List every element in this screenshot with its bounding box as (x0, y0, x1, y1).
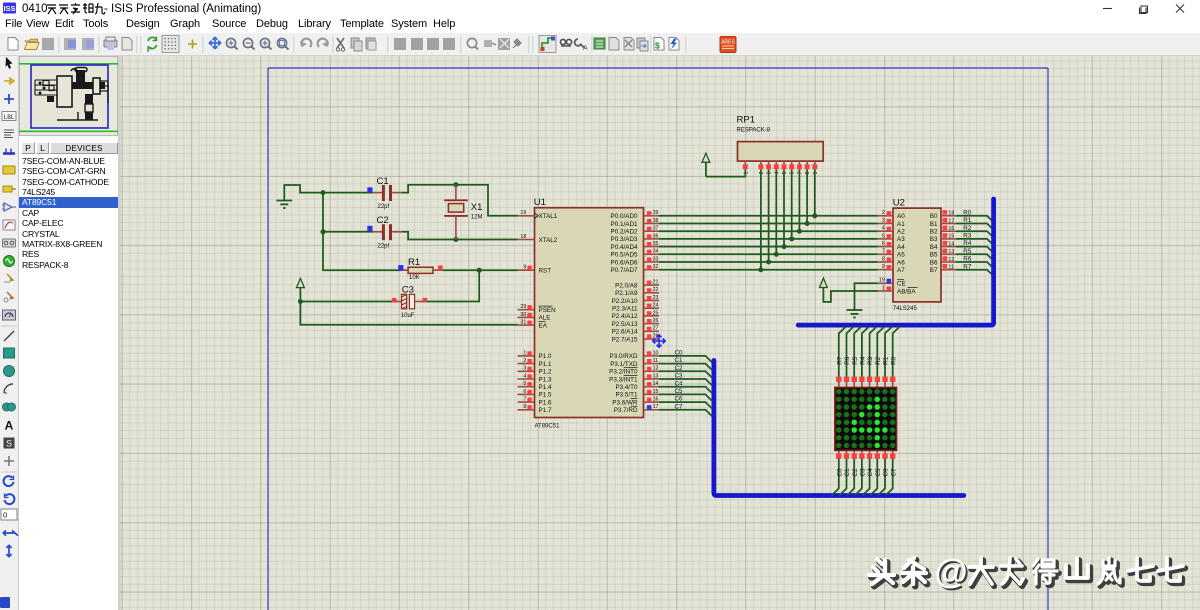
net label C2 at U1 (675, 365, 684, 372)
label U1 (534, 197, 546, 208)
svg-text:R2: R2 (875, 356, 882, 365)
svg-text:19: 19 (879, 278, 885, 284)
U1 pin 16 P3.6/WR (612, 397, 659, 407)
U1 pin 38 P0.1/AD1 (611, 218, 659, 228)
wire P3.2 net C2 into bus (659, 371, 712, 377)
label C1 (377, 176, 389, 187)
svg-text:31: 31 (520, 320, 526, 326)
wire ground to node A junctions (284, 185, 323, 201)
ground GND1 near C1 (276, 201, 292, 209)
wire bus to matrix bottom pin (net C1) (840, 456, 847, 495)
U1 pin 39 P0.0/AD0 (611, 210, 659, 220)
svg-text:R5: R5 (963, 248, 972, 255)
wire P0.2 to U2 A2 (659, 230, 878, 232)
matrix bottom pin 1 (836, 450, 841, 458)
wire RST junction down to C3 right (421, 270, 479, 301)
wire bus to matrix top pin (net R3) (870, 327, 877, 383)
svg-text:R0: R0 (963, 209, 972, 216)
label RP1 (737, 115, 755, 126)
svg-text:13: 13 (948, 249, 954, 255)
svg-text:U2: U2 (893, 197, 905, 208)
svg-text:AB/BA: AB/BA (897, 288, 916, 295)
svg-text:C4: C4 (867, 468, 874, 477)
U1 pin 10 P3.0/RXD (610, 350, 660, 360)
U1 pin 23 P2.2/A10 (612, 295, 659, 305)
svg-text:15: 15 (948, 234, 954, 240)
svg-text:A5: A5 (897, 252, 905, 259)
wire P0.0 to U2 A0 (659, 215, 878, 217)
junction RP1 pin4 on A5 wire (774, 252, 779, 257)
power terminal VCC2 (RP1) (702, 153, 710, 176)
wire B7 to bus, net R7 (956, 270, 994, 276)
svg-text:PSEN: PSEN (539, 307, 557, 314)
wire bus to matrix bottom pin (net C2) (847, 456, 854, 495)
svg-text:8: 8 (882, 256, 885, 262)
U1 pin 34 P0.5/AD5 (611, 249, 659, 259)
svg-text:2: 2 (523, 358, 526, 364)
net label C3 at matrix (860, 468, 867, 477)
svg-text:6: 6 (882, 241, 885, 247)
svg-text:9: 9 (882, 264, 885, 270)
svg-text:C5: C5 (875, 468, 882, 477)
svg-text:XTAL2: XTAL2 (539, 237, 558, 244)
svg-text:10K: 10K (409, 275, 420, 281)
svg-text:17: 17 (653, 404, 659, 410)
wire CE to ground (855, 283, 878, 310)
wire P3.3 net C3 into bus (659, 379, 712, 385)
svg-text:26: 26 (653, 318, 659, 324)
junction crystal bottom (455.9,239.5) (453, 237, 458, 242)
wire P0.3 to U2 A3 (659, 238, 878, 240)
svg-text:36: 36 (653, 233, 659, 239)
U1 pin 4 P1.3 (518, 373, 552, 383)
bus R (U2 B side to matrix rows) (798, 199, 993, 325)
wire P0.5 to U2 A5 (659, 253, 878, 255)
net label R1 (963, 217, 972, 224)
matrix top pin 7 (882, 377, 887, 388)
svg-text:A1: A1 (897, 221, 905, 228)
svg-text:B1: B1 (930, 221, 938, 228)
svg-text:P1.5: P1.5 (539, 392, 552, 399)
wire node B down and right to R1 left (323, 232, 401, 270)
svg-text:1: 1 (882, 285, 885, 291)
LED matrix dots (digit 4 pattern) (836, 389, 895, 448)
svg-text:P3.2/INT0: P3.2/INT0 (609, 369, 638, 376)
label U2 (893, 197, 905, 208)
svg-text:38: 38 (653, 218, 659, 224)
net label C1 at matrix (844, 468, 851, 477)
svg-text:R3: R3 (867, 356, 874, 365)
junction VCC1 node (300.4,301.5) (298, 299, 303, 304)
junction node A (323,192.6) (321, 190, 326, 195)
U1 pin 18 XTAL2 (518, 234, 558, 244)
svg-text:21: 21 (653, 280, 659, 286)
U2 pin 14 B4 (930, 241, 956, 251)
svg-text:@: @ (935, 553, 968, 591)
svg-text:4: 4 (882, 226, 885, 232)
U1 pin 35 P0.4/AD4 (611, 241, 659, 251)
capacitor C1 (323, 185, 402, 201)
svg-text:P2.2/A10: P2.2/A10 (612, 298, 638, 305)
wire bus to matrix bottom pin (net C0) (832, 456, 839, 495)
svg-text:13: 13 (653, 373, 659, 379)
svg-text:ALE: ALE (539, 315, 551, 322)
junction RP1 pin8 on A1 wire (805, 221, 810, 226)
svg-text:P3.4/T0: P3.4/T0 (615, 384, 638, 391)
device list header (19, 142, 118, 155)
RP1 pin 7 stub (797, 161, 804, 174)
label R1 (408, 257, 420, 268)
wire B0 to bus, net R0 (956, 216, 994, 222)
U1 pin 2 P1.1 (518, 358, 552, 368)
U1 pin 32 P0.7/AD7 (611, 264, 659, 274)
net label C0 at matrix (836, 468, 843, 477)
U1 pin 11 P3.1/TXD (610, 358, 659, 368)
svg-text:27: 27 (653, 326, 659, 332)
svg-text:P1.4: P1.4 (539, 384, 552, 391)
svg-text:10: 10 (653, 350, 659, 356)
svg-text:1: 1 (523, 350, 526, 356)
wire P3.4 net C4 into bus (659, 387, 712, 393)
svg-text:P2.6/A14: P2.6/A14 (612, 329, 638, 336)
value RESPACK-8 of RP1 (737, 128, 771, 134)
wire RP1 pin4 down to A5 wire (775, 170, 777, 255)
label C3 (402, 285, 414, 296)
U1 pin 33 P0.6/AD6 (611, 256, 659, 266)
net label R2 at matrix (875, 356, 882, 365)
wire P3.5 net C5 into bus (659, 394, 712, 400)
value 74LS245 of U2 (893, 306, 918, 312)
net label C2 at matrix (852, 468, 859, 477)
RP1 pin 9 stub (812, 161, 819, 174)
svg-text:C3: C3 (860, 468, 867, 477)
svg-text:18: 18 (948, 211, 954, 217)
power terminal VCC3 (U2 AB/BA) (820, 278, 828, 287)
svg-text:C7: C7 (675, 403, 684, 410)
U1 pin 30 ALE (518, 312, 551, 322)
U1 pin 36 P0.3/AD3 (611, 233, 659, 243)
capacitor C3 electrolytic (300, 294, 427, 309)
net label C7 at matrix (890, 468, 897, 477)
svg-text:2: 2 (882, 210, 885, 216)
wire RP1 pin2 down to A7 wire (760, 170, 762, 270)
net label R0 at matrix (890, 356, 897, 365)
net label C4 at matrix (867, 468, 874, 477)
LED matrix MATRIX-8x8-GREEN body (835, 387, 897, 450)
label X1 (471, 202, 483, 213)
RP1 pin 4 stub (774, 161, 781, 174)
U2 pin 4 A2 (878, 226, 905, 236)
matrix bottom pin 7 (882, 450, 887, 458)
net label C4 at U1 (675, 380, 684, 387)
svg-text:RESPACK-8: RESPACK-8 (737, 128, 771, 134)
svg-text:EA: EA (539, 322, 548, 329)
svg-text:8: 8 (805, 171, 811, 174)
U1 pin 27 P2.6/A14 (612, 326, 659, 336)
ground GND2 (U2 CE) (847, 310, 863, 318)
U1 pin 22 P2.1/A9 (615, 287, 659, 297)
net label C0 at U1 (675, 350, 684, 357)
U1 pin 24 P2.3/A11 (612, 303, 659, 313)
svg-text:P2.0/A8: P2.0/A8 (615, 282, 638, 289)
junction RP1 pin3 on A6 wire (766, 260, 771, 265)
wire bus to matrix top pin (net R5) (854, 327, 861, 383)
U2 pin 1 AB/BA (878, 285, 918, 295)
svg-text:B7: B7 (930, 267, 938, 274)
net label C7 at U1 (675, 403, 684, 410)
svg-text:5: 5 (782, 171, 788, 174)
value 10uF of C3 (401, 313, 415, 319)
U2 pin 13 B5 (930, 249, 956, 259)
watermark 头条 @大龙得山岚七七 (869, 553, 1185, 593)
wire bus to matrix top pin (net R2) (877, 327, 884, 383)
RP1 pin 3 stub (766, 161, 773, 174)
U2 pin 19 CE (878, 278, 906, 288)
matrix top pin 5 (867, 377, 872, 388)
svg-text:C7: C7 (890, 468, 897, 477)
svg-text:R7: R7 (836, 356, 843, 365)
svg-text:AT89C51: AT89C51 (535, 424, 561, 430)
device list (19, 155, 118, 610)
svg-text:74LS245: 74LS245 (893, 306, 918, 312)
svg-text:4: 4 (523, 373, 526, 379)
svg-text:XTAL1: XTAL1 (539, 213, 558, 220)
matrix bottom pin 5 (867, 450, 872, 458)
wire RP1 pin7 down to A2 wire (798, 170, 800, 232)
wire P3.0 net C0 into bus (659, 356, 712, 362)
net label R4 at matrix (860, 356, 867, 365)
svg-text:R5: R5 (852, 356, 859, 365)
svg-text:17: 17 (948, 218, 954, 224)
svg-text:11: 11 (948, 265, 954, 271)
wire bus to matrix top pin (net R6) (847, 327, 854, 383)
svg-text:B6: B6 (930, 259, 938, 266)
svg-text:19: 19 (520, 210, 526, 216)
svg-text:C2: C2 (377, 215, 389, 226)
matrix bottom pin 4 (859, 450, 864, 458)
svg-text:2: 2 (759, 171, 765, 174)
svg-text:C1: C1 (377, 176, 389, 187)
matrix top pin 8 (890, 377, 895, 388)
svg-text:18: 18 (520, 234, 526, 240)
RP1 pin 8 stub (805, 161, 812, 174)
net label C5 at matrix (875, 468, 882, 477)
junction RP1 pin7 on A2 wire (797, 229, 802, 234)
RP1 pin 2 stub (758, 161, 765, 174)
svg-text:R6: R6 (963, 256, 972, 263)
svg-text:32: 32 (653, 264, 659, 270)
U2 pin 11 B7 (930, 264, 956, 274)
svg-text:P3.0/RXD: P3.0/RXD (610, 353, 638, 360)
U2 pin 8 A6 (878, 256, 905, 266)
U1 pin 17 P3.7/RD (614, 404, 659, 414)
matrix top pin 2 (844, 377, 849, 388)
net label R5 at matrix (852, 356, 859, 365)
net label R3 at matrix (867, 356, 874, 365)
svg-text:10uF: 10uF (401, 313, 415, 319)
svg-text:12: 12 (653, 366, 659, 372)
svg-text:C4: C4 (675, 380, 684, 387)
svg-text:29: 29 (520, 304, 526, 310)
svg-text:14: 14 (948, 241, 954, 247)
junction RP1 pin2 on A7 wire (758, 267, 763, 272)
svg-text:P2.5/A13: P2.5/A13 (612, 321, 638, 328)
svg-text:P1.7: P1.7 (539, 407, 552, 414)
svg-text:5: 5 (523, 381, 526, 387)
value 22pf of C1 (378, 204, 390, 210)
overview panel (19, 56, 118, 610)
svg-text:6: 6 (523, 389, 526, 395)
op-amp U2 74LS245 body (893, 208, 941, 302)
wire P3.1 net C1 into bus (659, 364, 712, 370)
RP1 pin 6 stub (789, 161, 796, 174)
wire VCC1 down to EA pin (300, 302, 517, 325)
net label C6 at matrix (883, 468, 890, 477)
net label R7 (963, 263, 972, 270)
matrix top pin 4 (859, 377, 864, 388)
title bar (0, 0, 1200, 17)
svg-text:P3.7/RD: P3.7/RD (614, 407, 638, 414)
svg-text:B0: B0 (930, 213, 938, 220)
wire C2 to XTAL2 net (402, 232, 518, 240)
svg-text:7: 7 (523, 397, 526, 403)
wire RP1 pin8 down to A1 wire (806, 170, 808, 224)
wire B1 to bus, net R1 (956, 224, 994, 230)
U1 pin 19 XTAL1 (518, 210, 558, 220)
junction crystal top (455.9,184.7) (453, 182, 458, 187)
wire B3 to bus, net R3 (956, 239, 994, 245)
matrix bottom pin 6 (875, 450, 880, 458)
svg-text:P1.6: P1.6 (539, 399, 552, 406)
svg-text:P1.0: P1.0 (539, 353, 552, 360)
matrix top pin 6 (875, 377, 880, 388)
value 10K of R1 (409, 275, 420, 281)
U2 pin 18 B0 (930, 210, 956, 220)
crystal X1 (444, 185, 468, 240)
left tool strip (0, 56, 19, 610)
U1 pin 29 PSEN (518, 304, 557, 314)
svg-text:12M: 12M (471, 215, 483, 221)
matrix top pin 3 (852, 377, 857, 388)
U1 pin 14 P3.4/T0 (615, 381, 659, 391)
wire RP1 pin9 down to A0 wire (814, 170, 816, 216)
svg-text:16: 16 (653, 397, 659, 403)
svg-text:23: 23 (653, 295, 659, 301)
svg-text:R4: R4 (860, 356, 867, 365)
matrix bottom pin 3 (852, 450, 857, 458)
svg-text:CE: CE (897, 281, 906, 288)
svg-text:12: 12 (948, 257, 954, 263)
wire VCC2 to RP1 pin1 (706, 170, 745, 177)
svg-text:3: 3 (523, 366, 526, 372)
wire B5 to bus, net R5 (956, 254, 994, 260)
svg-text:B3: B3 (930, 236, 938, 243)
junction RP1 pin5 on A4 wire (782, 244, 787, 249)
U1 pin 26 P2.5/A13 (612, 318, 659, 328)
wire RP1 pin6 down to A3 wire (791, 170, 793, 239)
svg-text:P1.3: P1.3 (539, 376, 552, 383)
wire P0.4 to U2 A4 (659, 246, 878, 248)
matrix bottom pin 8 (890, 450, 895, 458)
svg-text:C3: C3 (675, 373, 684, 380)
wire B6 to bus, net R6 (956, 262, 994, 268)
svg-text:11: 11 (653, 358, 659, 364)
svg-text:C0: C0 (836, 468, 843, 477)
svg-text:P3.1/TXD: P3.1/TXD (610, 361, 638, 368)
wire P3.6 net C6 into bus (659, 402, 712, 408)
svg-text:P0.3/AD3: P0.3/AD3 (611, 236, 638, 243)
svg-text:P0.2/AD2: P0.2/AD2 (611, 229, 638, 236)
matrix top pin 1 (836, 377, 841, 388)
net label R5 (963, 248, 972, 255)
power terminal VCC1 (left) (297, 278, 305, 301)
U2 pin 2 A0 (878, 210, 905, 220)
svg-text:1: 1 (743, 171, 749, 174)
main toolbar (0, 33, 1200, 56)
bus C (U1 P3 to matrix columns) (714, 361, 964, 496)
junction RP1 pin6 on A3 wire (789, 236, 794, 241)
wire P0.1 to U2 A1 (659, 223, 878, 225)
RP1 pin 5 stub (782, 161, 789, 174)
svg-text:A3: A3 (897, 236, 905, 243)
svg-text:P3.6/WR: P3.6/WR (612, 399, 638, 406)
svg-text:25: 25 (653, 310, 659, 316)
svg-text:7: 7 (882, 249, 885, 255)
U2 pin 16 B2 (930, 226, 956, 236)
U1 pin 12 P3.2/INT0 (609, 366, 659, 376)
U1 pin 1 P1.0 (518, 350, 552, 360)
svg-text:P2.3/A11: P2.3/A11 (612, 306, 638, 313)
net label R3 (963, 233, 972, 240)
svg-text:A6: A6 (897, 259, 905, 266)
net label R6 at matrix (844, 356, 851, 365)
U2 pin 9 A7 (878, 264, 905, 274)
svg-text:R2: R2 (963, 225, 972, 232)
U1 pin 9 RST (518, 265, 552, 275)
resistor pack RP1 RESPACK-8 body (738, 142, 824, 162)
svg-text:9: 9 (523, 265, 526, 271)
svg-text:R0: R0 (890, 356, 897, 365)
label C2 (377, 215, 389, 226)
svg-text:C3: C3 (402, 285, 414, 296)
svg-text:4: 4 (774, 171, 780, 174)
wire P0.6 to U2 A6 (659, 261, 878, 263)
svg-text:R4: R4 (963, 240, 972, 247)
svg-text:R3: R3 (963, 233, 972, 240)
svg-text:P0.5/AD5: P0.5/AD5 (611, 252, 638, 259)
net label C1 at U1 (675, 357, 684, 364)
svg-text:5: 5 (882, 233, 885, 239)
svg-text:A0: A0 (897, 213, 905, 220)
sheet border (268, 68, 1048, 610)
svg-text:C2: C2 (675, 365, 684, 372)
wire bus to matrix bottom pin (net C7) (886, 456, 893, 495)
wire bus to matrix top pin (net R1) (885, 327, 892, 383)
wire bus to matrix bottom pin (net C6) (878, 456, 885, 495)
net label R7 at matrix (836, 356, 843, 365)
svg-text:39: 39 (653, 210, 659, 216)
net label R1 at matrix (883, 356, 890, 365)
op-amp U1 AT89C51 body (535, 208, 644, 418)
svg-text:A4: A4 (897, 244, 905, 251)
svg-text:P2.4/A12: P2.4/A12 (612, 313, 638, 320)
U1 pin 3 P1.2 (518, 366, 552, 376)
wire bus to matrix top pin (net R7) (839, 327, 846, 383)
U2 pin 5 A3 (878, 233, 905, 243)
U1 pin 31 EA (518, 320, 548, 330)
svg-text:P0.7/AD7: P0.7/AD7 (611, 267, 638, 274)
U1 pin 21 P2.0/A8 (615, 280, 659, 290)
